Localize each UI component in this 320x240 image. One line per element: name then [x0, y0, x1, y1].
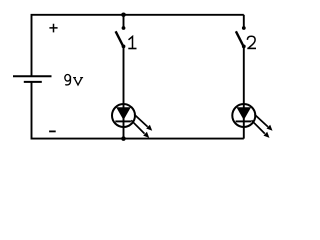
wire top rail — [32, 15, 244, 76]
LED D2 light arrow lower — [252, 120, 270, 138]
switch S2 blade (open) — [236, 31, 243, 45]
label + (battery positive) — [49, 24, 57, 33]
wire switch 1 to bottom rail through LED D1 — [123, 46, 125, 138]
LED D1 light arrow upper — [134, 114, 152, 130]
switch S1 top terminal — [122, 26, 126, 30]
wire left lower + bottom rail — [32, 82, 244, 139]
node junction dot top (switch 1 tap) — [121, 13, 126, 18]
switch S2 top terminal — [242, 26, 246, 30]
switch S1 blade (open) — [116, 31, 123, 45]
label - (battery negative) — [49, 130, 56, 132]
label 2 (switch S2) — [247, 36, 256, 48]
LED D1 anode triangle — [116, 107, 131, 120]
switch S1 bottom terminal — [122, 45, 126, 49]
LED D2 light arrow upper — [255, 114, 273, 130]
wire switch 2 upper lead — [243, 15, 245, 28]
LED D2 cathode bar — [236, 120, 252, 122]
label 1 (switch S1) — [128, 37, 136, 49]
LED D1 light arrow lower — [131, 120, 149, 138]
battery B1 negative plate — [24, 81, 42, 83]
wire switch 1 upper lead — [123, 15, 125, 28]
LED D2 anode triangle — [237, 107, 252, 120]
label 9v (battery value): glyph 9 — [65, 75, 71, 85]
LED D1 cathode bar — [115, 120, 131, 122]
battery B1 positive plate — [13, 75, 52, 77]
node junction dot bottom (LED D1 return) — [121, 136, 126, 141]
wire switch 2 to bottom rail through LED D2 — [243, 46, 245, 138]
LED D2 circle — [232, 104, 255, 127]
LED D1 circle — [112, 104, 135, 127]
label 9v (battery value): glyph v — [73, 78, 83, 85]
switch S2 bottom terminal — [242, 45, 246, 49]
